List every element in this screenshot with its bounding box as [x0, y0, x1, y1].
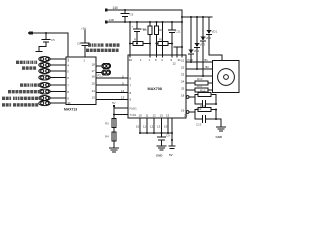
- svg-text:10: 10: [136, 125, 140, 129]
- resistor R4 vertical chain: [112, 132, 116, 141]
- svg-text:C11: C11: [176, 30, 181, 34]
- LED VD2 column x203: [200, 16, 205, 76]
- resistor R3 vertical chain: [112, 119, 116, 128]
- wire U2 bottom pin x147: [146, 118, 148, 133]
- svg-text:R3: R3: [105, 122, 109, 126]
- capacitor C9 between rails: [121, 9, 129, 23]
- svg-text:20: 20: [184, 114, 188, 118]
- connector J6: [39, 89, 66, 94]
- connector K1 right of U1: [96, 64, 111, 69]
- svg-text:15: 15: [166, 114, 170, 118]
- svg-text:4: 4: [67, 64, 69, 68]
- svg-text:22: 22: [181, 66, 185, 70]
- connector K2 right of U1: [96, 70, 111, 75]
- pin numbers U2 bottom: [139, 114, 188, 118]
- LED VD4 column x191: [188, 16, 193, 62]
- wire second rail: [107, 21, 182, 23]
- terminal input left: [28, 32, 69, 35]
- svg-text:5: 5: [67, 70, 69, 74]
- wire U2 bottom pin x140: [139, 118, 141, 133]
- wire U2 bottom pin x168: [167, 118, 169, 133]
- pin numbers U2 top: [129, 58, 181, 66]
- label row 6: [8, 90, 41, 93]
- svg-text:9: 9: [67, 97, 69, 101]
- annotation note: [88, 43, 120, 46]
- svg-text:R4: R4: [105, 135, 109, 139]
- svg-text:18: 18: [92, 63, 96, 67]
- node rail2 x130: [129, 21, 131, 23]
- svg-text:+: +: [132, 25, 134, 29]
- svg-text:8: 8: [130, 91, 132, 95]
- pin numbers U2 left and wires: [121, 75, 132, 102]
- wire to U1 top pin1: [67, 33, 69, 57]
- svg-text:B2: B2: [206, 65, 210, 69]
- svg-text:19: 19: [181, 109, 185, 113]
- resistor R5 vertical: [148, 21, 152, 57]
- terminal left of rail 2: [105, 21, 107, 24]
- LED VD3 column x197: [194, 16, 199, 69]
- svg-text:C9: C9: [130, 13, 134, 17]
- wire right top rail: [182, 16, 212, 18]
- svg-text:VD1: VD1: [212, 30, 218, 34]
- svg-text:1: 1: [149, 58, 151, 62]
- connector J5: [39, 83, 66, 88]
- svg-text:13: 13: [92, 96, 96, 100]
- svg-text:C9: C9: [166, 134, 170, 138]
- RC pair 2: resistor R13: [186, 108, 217, 120]
- capacitor C5: [36, 33, 50, 52]
- wire rail2 to U2 pin at x130: [129, 22, 131, 57]
- svg-text:7: 7: [130, 84, 132, 88]
- svg-text:MAX708: MAX708: [148, 87, 162, 91]
- svg-text:GND: GND: [156, 154, 162, 158]
- svg-text:12: 12: [150, 125, 154, 129]
- svg-text:8: 8: [67, 90, 69, 94]
- capacitor C12: [195, 97, 217, 107]
- resistor R6 vertical: [154, 21, 158, 57]
- svg-text:R8: R8: [159, 38, 163, 42]
- svg-text:C6: C6: [77, 42, 81, 46]
- wire rail1 drop to rail2 at right: [181, 10, 183, 57]
- svg-text:21: 21: [181, 59, 185, 63]
- svg-text:GND: GND: [216, 135, 222, 139]
- IC U1 MAX713 body: [66, 57, 96, 105]
- svg-text:9: 9: [130, 98, 132, 102]
- wire rail2 to resistor line x162: [161, 21, 163, 57]
- ground chain bottom: [110, 148, 119, 152]
- svg-text:12: 12: [153, 114, 157, 118]
- svg-text:VD2: VD2: [206, 36, 212, 40]
- label port row 5: [20, 83, 41, 86]
- svg-text:2: 2: [84, 59, 86, 63]
- svg-text:13: 13: [157, 125, 161, 129]
- svg-text:11: 11: [143, 125, 146, 129]
- ground bottom middle: [157, 146, 166, 150]
- svg-text:7: 7: [67, 84, 69, 88]
- label port group A: [16, 61, 37, 64]
- svg-text:40: 40: [129, 58, 133, 62]
- wire U1 to U2 row y92.4: [96, 91, 128, 93]
- svg-text:P2.1: P2.1: [98, 74, 104, 78]
- capacitor C14 below bus: [158, 133, 166, 146]
- pin numbers U2 bottom outside: [136, 125, 168, 129]
- wire U2 right pin row y62: [186, 61, 213, 63]
- svg-text:5: 5: [155, 58, 157, 62]
- svg-text:R11: R11: [197, 84, 202, 88]
- svg-text:15: 15: [164, 125, 168, 129]
- svg-text:18: 18: [181, 94, 185, 98]
- capacitor C11 column: [169, 21, 176, 57]
- label row 8: [2, 103, 38, 106]
- pin numbers U1 right: [92, 63, 96, 100]
- node rail drop x182: [181, 16, 183, 18]
- svg-text:15: 15: [92, 82, 96, 86]
- svg-text:R12: R12: [200, 89, 206, 93]
- svg-text:6: 6: [67, 76, 69, 80]
- svg-text:140: 140: [113, 6, 119, 10]
- svg-text:C5: C5: [51, 38, 55, 42]
- svg-text:TxD1: TxD1: [130, 113, 137, 117]
- svg-text:C13: C13: [196, 123, 202, 127]
- svg-text:10: 10: [67, 101, 71, 105]
- wire U2 bottom pin x172: [171, 118, 173, 133]
- wire U2 top pin x177: [174, 46, 183, 57]
- svg-text:4: 4: [161, 58, 163, 62]
- svg-text:R7: R7: [134, 38, 138, 42]
- connector J8: [39, 101, 66, 106]
- svg-text:6: 6: [130, 77, 132, 81]
- speaker M box: [213, 61, 240, 93]
- svg-text:RxD1: RxD1: [130, 107, 138, 111]
- wire U1 to U2 row y78: [96, 77, 128, 79]
- connector J7: [39, 96, 66, 101]
- svg-text:R10: R10: [197, 77, 203, 81]
- wire U1 to U2 row y85: [96, 84, 128, 86]
- svg-text:R13: R13: [200, 104, 206, 108]
- ground right cluster: [216, 119, 226, 131]
- wire top rail VCC: [107, 9, 182, 11]
- capacitor C10 column: [134, 21, 141, 44]
- wire U2 bottom pin x154: [153, 118, 155, 133]
- connector J4: [39, 75, 66, 80]
- wire ground bus under U2: [139, 132, 172, 134]
- connector J1: [39, 57, 66, 62]
- connector J3: [39, 69, 66, 74]
- svg-text:B1: B1: [205, 58, 209, 62]
- svg-text:1: 1: [140, 58, 142, 62]
- pin numbers U2 right: [181, 59, 185, 113]
- svg-text:25: 25: [181, 87, 185, 91]
- svg-text:17: 17: [92, 69, 96, 73]
- IC U2 89C51 body: [128, 55, 186, 118]
- svg-text:13: 13: [160, 114, 164, 118]
- RC pair 1: resistor R12: [186, 93, 216, 105]
- svg-text:VD4: VD4: [194, 49, 200, 53]
- wire U1 to U2 row y99.3: [96, 98, 128, 100]
- svg-text:12: 12: [173, 62, 177, 66]
- svg-text:14: 14: [121, 89, 125, 93]
- battery 5V terminal: [169, 132, 175, 149]
- svg-text:R6: R6: [159, 28, 163, 32]
- svg-text:10: 10: [139, 114, 143, 118]
- terminal top-left of rail 1: [105, 9, 107, 12]
- svg-text:13: 13: [121, 96, 125, 100]
- svg-text:14: 14: [92, 89, 96, 93]
- terminal +5V chain top: [113, 105, 128, 148]
- resistor R11 row y90: [186, 88, 213, 92]
- svg-text:11: 11: [146, 114, 149, 118]
- svg-text:P1.0: P1.0: [188, 58, 194, 62]
- capacitor C13: [195, 112, 217, 122]
- svg-text:VD3: VD3: [200, 43, 206, 47]
- resistor R10 row y83: [186, 81, 213, 85]
- connector J2: [39, 63, 66, 68]
- svg-text:23: 23: [181, 73, 185, 77]
- svg-text:24: 24: [181, 80, 185, 84]
- wire U2 bottom pin x161.5: [161, 118, 163, 133]
- svg-text:R5: R5: [143, 28, 147, 32]
- wire U2 right pin row y69: [186, 68, 213, 70]
- label row 7: [2, 97, 42, 100]
- resistor R8 horizontal: [155, 41, 173, 45]
- svg-text:5V: 5V: [169, 153, 173, 157]
- LED VD1 column x209: [206, 17, 222, 61]
- resistor R7 horizontal: [129, 41, 151, 45]
- svg-text:MAX713: MAX713: [64, 107, 77, 111]
- svg-text:16: 16: [92, 75, 96, 79]
- svg-text:5V: 5V: [112, 101, 116, 105]
- svg-text:+5V: +5V: [81, 27, 86, 31]
- wire U2 right pin row y76: [186, 75, 213, 77]
- svg-text:14D: 14D: [109, 18, 115, 22]
- capacitor C6 column to U1 pin2: [81, 30, 89, 57]
